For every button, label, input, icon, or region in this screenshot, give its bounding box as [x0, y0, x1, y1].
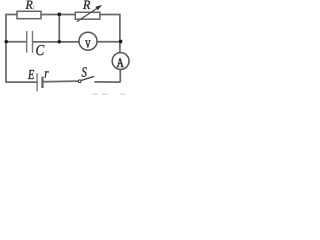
label A — [117, 58, 124, 67]
scan artifact dash 1 — [93, 94, 98, 95]
label S — [82, 67, 87, 77]
scan artifact dash 3 — [120, 94, 125, 95]
wire top bus — [6, 14, 120, 16]
wire right bus lower — [119, 70, 121, 83]
wire bottom-left to battery — [5, 81, 37, 83]
battery long thin plate — [36, 73, 38, 91]
resistor R1 body — [17, 11, 41, 18]
label C — [36, 45, 44, 55]
node dot top bus — [57, 13, 61, 17]
node dot right bus — [119, 40, 123, 44]
wire right bus upper — [119, 14, 121, 53]
battery short thick plate — [41, 77, 43, 88]
switch S pivot ring — [78, 80, 81, 83]
label R1 subscript 1 — [33, 5, 34, 9]
label E — [28, 70, 34, 79]
switch S blade — [81, 76, 94, 80]
label V — [85, 40, 90, 47]
wire left bus — [5, 14, 7, 83]
rheostat R arrow head — [95, 5, 102, 10]
voltmeter V circle — [79, 32, 97, 50]
label R1 letter R — [26, 1, 33, 9]
wire link vertical — [58, 15, 60, 42]
label R rheostat — [83, 1, 90, 10]
scan artifact dash 2 — [102, 94, 108, 95]
wire capacitor to voltmeter — [33, 41, 80, 43]
rheostat R body — [75, 12, 100, 19]
wire voltmeter to right bus — [97, 41, 120, 43]
capacitor C right plate — [32, 31, 34, 53]
node dot middle bus — [58, 40, 62, 44]
label r — [45, 71, 49, 78]
wire middle-left to capacitor — [6, 41, 27, 43]
node dot left — [4, 40, 8, 44]
capacitor C left plate — [26, 31, 28, 53]
wire battery to switch pivot — [43, 80, 79, 83]
wire switch contact to right corner — [94, 81, 120, 83]
rheostat R arrow shaft — [77, 8, 97, 21]
ammeter A circle — [112, 53, 129, 70]
